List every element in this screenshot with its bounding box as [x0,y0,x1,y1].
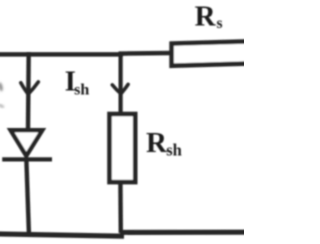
wire bottom bus left segment [0,234,124,236]
wire Rsh branch upper stub [118,52,122,115]
svg-text:sh: sh [166,141,182,160]
wire diode branch lower stub [26,158,29,237]
svg-text:R: R [195,0,217,32]
resistor Rs (series resistor box, cut off at right edge) [172,41,252,65]
cropped label fragment at left edge (lower) [0,105,3,107]
svg-text:R: R [146,127,168,159]
wire top bus right segment [119,51,172,56]
wire bottom bus right segment [120,230,246,235]
current arrow Ish on Rsh branch [112,84,128,93]
diode cathode bar [2,157,52,161]
svg-text:s: s [217,15,223,32]
diode D (triangle) [11,130,43,156]
wire Rsh branch lower stub [118,180,123,233]
resistor Rsh (shunt resistor box) [110,114,136,182]
wire top bus left segment [0,52,123,57]
svg-text:sh: sh [74,81,89,98]
current arrow on diode branch [21,82,39,94]
cropped label fragment at left edge (upper) [0,82,4,92]
wire diode branch upper stub [26,52,31,130]
